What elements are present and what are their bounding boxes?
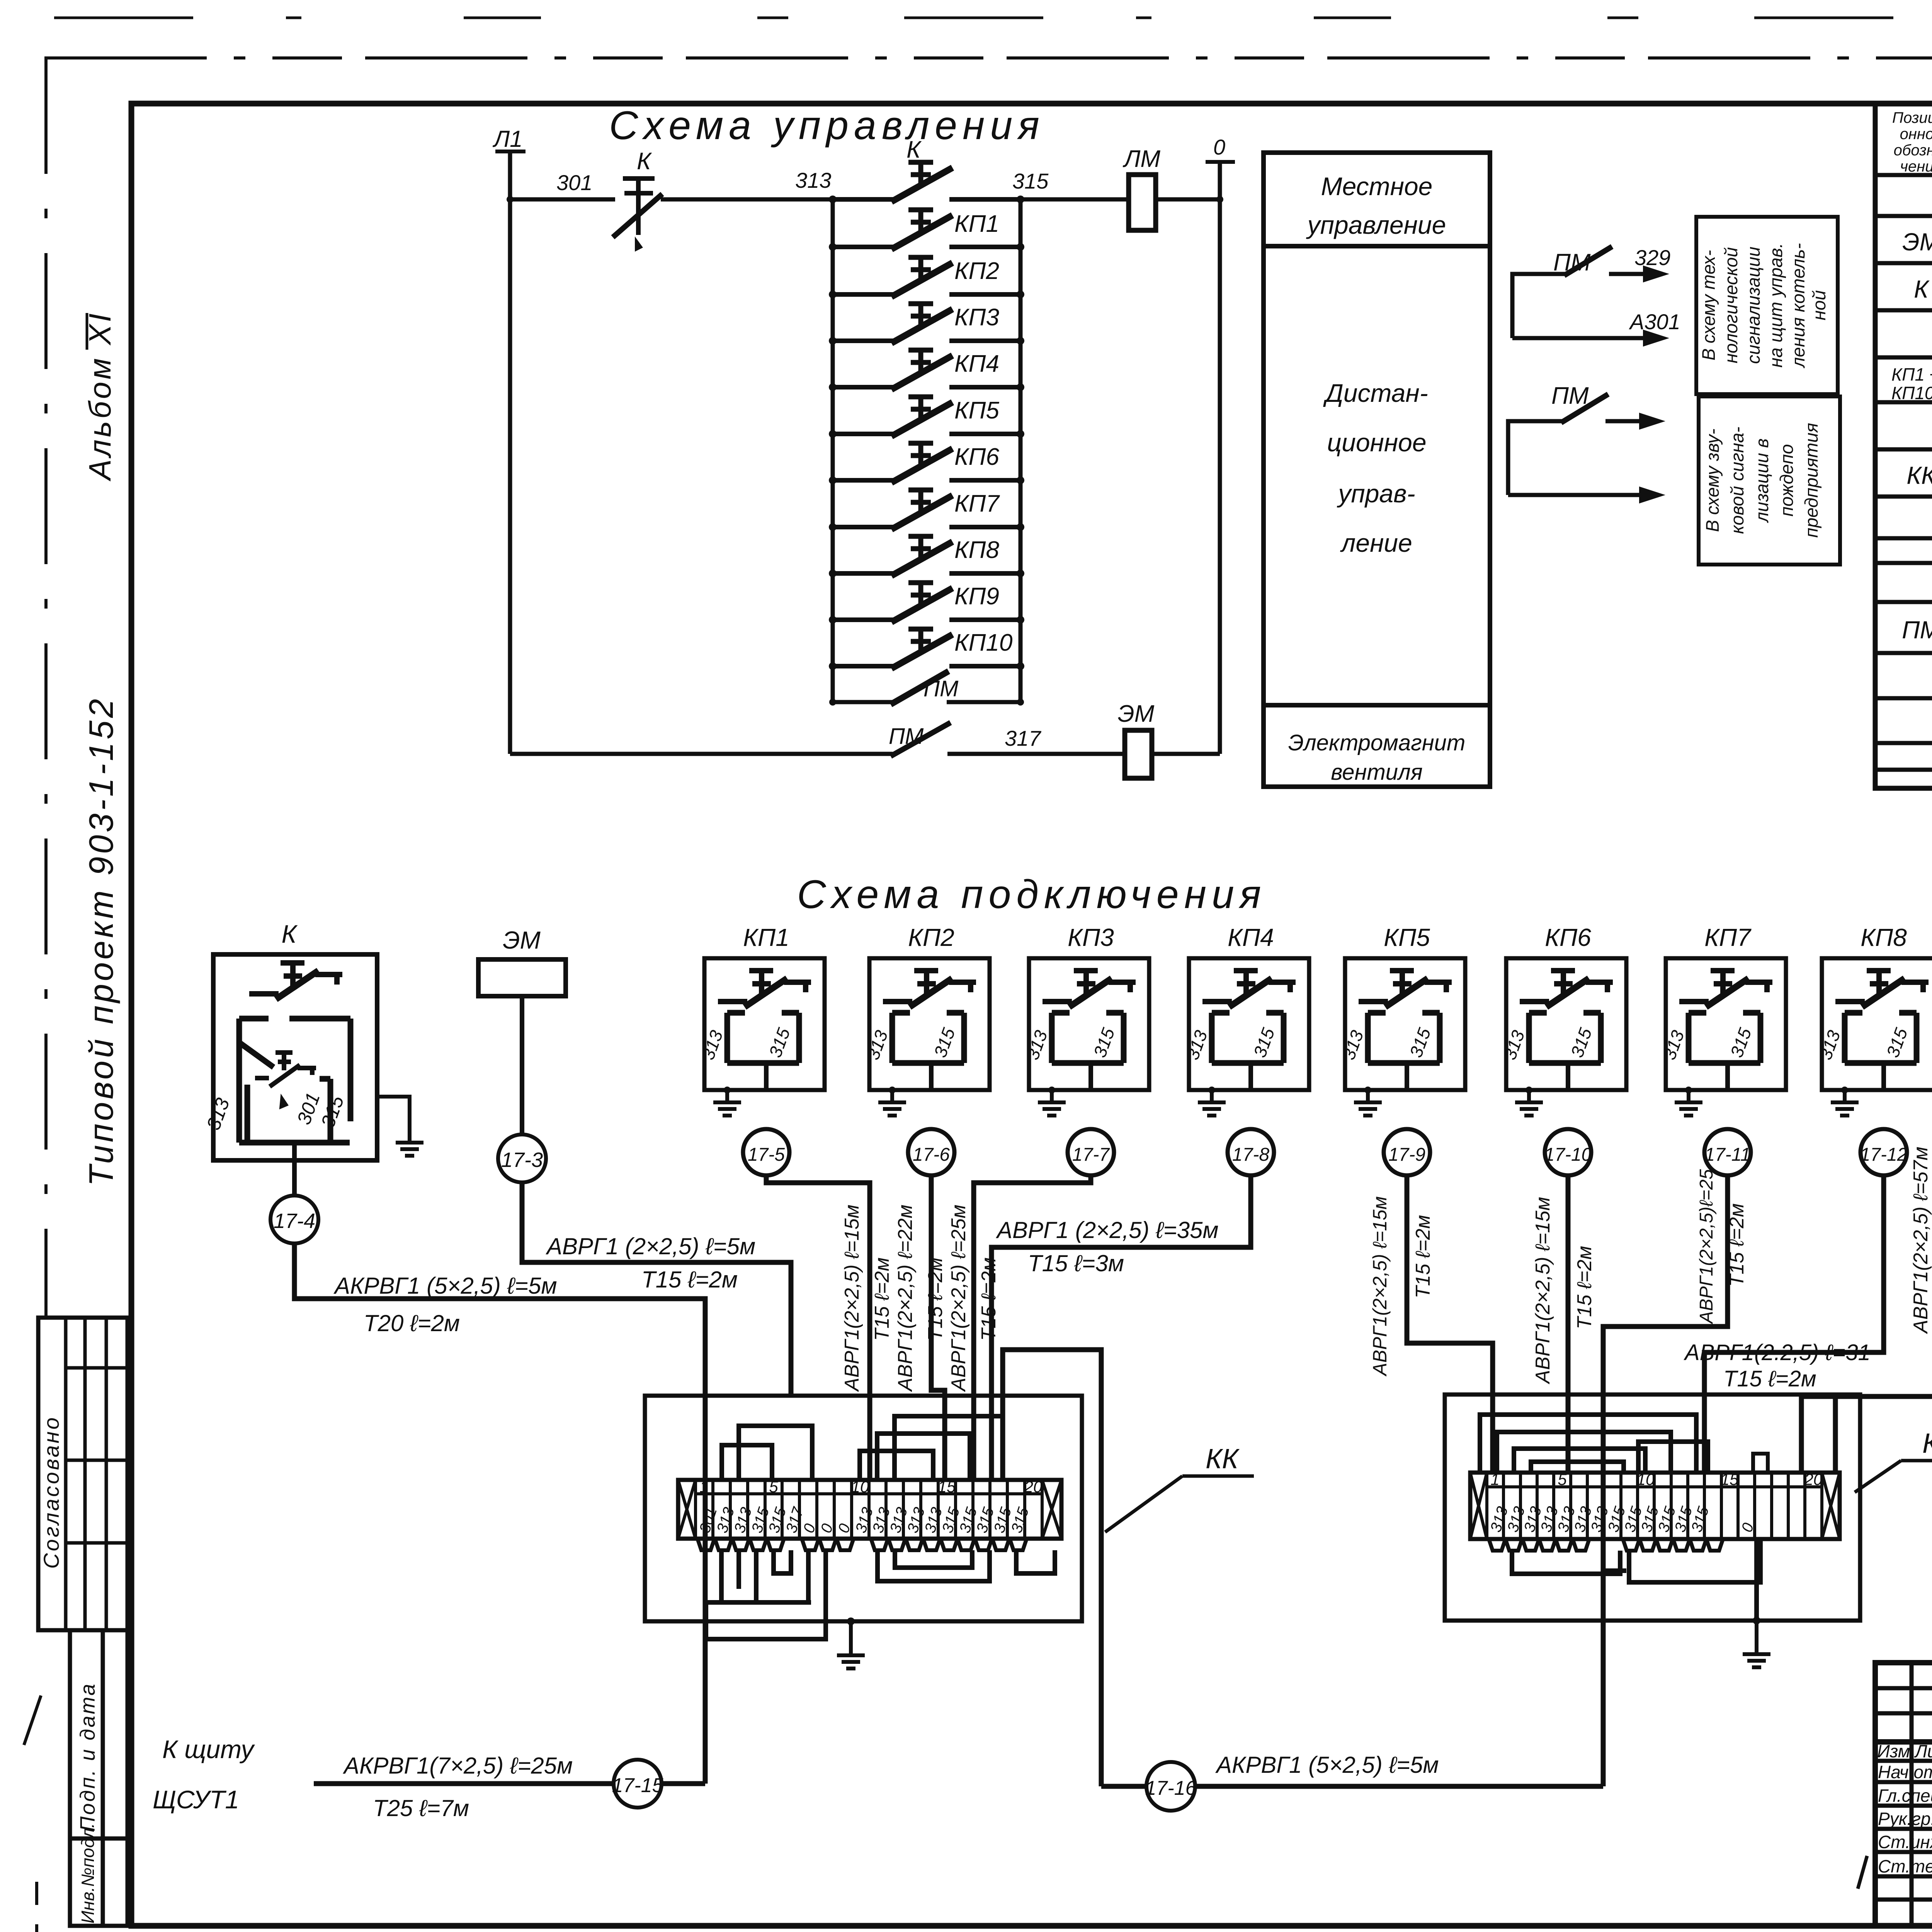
terminal strip KK1 <box>678 1480 1061 1539</box>
svg-text:В схему зву-: В схему зву- <box>1702 429 1723 532</box>
svg-text:КП5: КП5 <box>954 397 999 424</box>
svg-text:ной: ной <box>1809 290 1829 320</box>
push-button contact KP9 <box>829 582 1024 624</box>
signatures <box>1858 1766 1932 1889</box>
svg-text:Инв.№подл.: Инв.№подл. <box>78 1823 98 1923</box>
svg-text:ЩСУТ1: ЩСУТ1 <box>153 1785 239 1814</box>
svg-text:5: 5 <box>1558 1470 1567 1488</box>
svg-text:17-12: 17-12 <box>1860 1145 1908 1165</box>
svg-text:АВРГ1(2×2,5) ℓ=15м: АВРГ1(2×2,5) ℓ=15м <box>1532 1197 1554 1384</box>
svg-text:К: К <box>1914 275 1930 303</box>
svg-text:17-15: 17-15 <box>612 1774 664 1797</box>
svg-text:Согласовано: Согласовано <box>39 1415 63 1569</box>
svg-text:Типовой проект 903-1-152: Типовой проект 903-1-152 <box>82 696 120 1186</box>
svg-text:315: 315 <box>1012 169 1049 193</box>
svg-text:К: К <box>282 920 298 948</box>
button station KP4 <box>1182 958 1309 1090</box>
svg-text:вентиля: вентиля <box>1331 760 1422 785</box>
control mode box <box>1264 153 1490 787</box>
svg-text:ПМ: ПМ <box>889 724 924 749</box>
svg-text:1: 1 <box>1490 1470 1499 1488</box>
wire 301 top <box>510 197 615 202</box>
wire jumpers below strip KK2 <box>1512 1539 1760 1582</box>
button station K <box>213 954 377 1196</box>
svg-text:ПМ: ПМ <box>1902 616 1932 644</box>
svg-text:17-7: 17-7 <box>1072 1145 1110 1165</box>
svg-text:Л1: Л1 <box>492 126 523 152</box>
svg-text:ционное: ционное <box>1327 428 1426 457</box>
svg-text:5: 5 <box>769 1478 778 1496</box>
svg-text:Ст.техн.: Ст.техн. <box>1878 1856 1932 1876</box>
cable marker circle 17-16 <box>1101 1784 1146 1789</box>
svg-text:КП1: КП1 <box>743 923 789 951</box>
wire 313 top <box>661 197 833 202</box>
wire bottom rung <box>510 752 893 756</box>
svg-text:АКРВГ1 (5×2,5) ℓ=5м: АКРВГ1 (5×2,5) ℓ=5м <box>1215 1752 1439 1778</box>
svg-text:нологической: нологической <box>1721 247 1741 364</box>
svg-text:17-16: 17-16 <box>1145 1777 1197 1799</box>
terminal wire labels KK2 <box>1487 1504 1757 1534</box>
svg-text:ЭМ: ЭМ <box>1118 701 1155 727</box>
margin approval box <box>38 1318 128 1630</box>
margin signature-date box <box>70 1630 128 1838</box>
svg-text:КК: КК <box>1922 1428 1932 1459</box>
cable KP2 to KK1 <box>931 1175 945 1480</box>
svg-text:КП10: КП10 <box>954 629 1012 656</box>
title block <box>1875 1663 1932 1926</box>
svg-text:10: 10 <box>1637 1470 1655 1488</box>
annotation box sound alarm <box>1699 396 1840 565</box>
svg-text:Т15 ℓ=2м: Т15 ℓ=2м <box>1723 1366 1816 1391</box>
svg-text:КП6: КП6 <box>1545 923 1591 951</box>
svg-text:301: 301 <box>556 170 592 195</box>
svg-text:чение: чение <box>1900 158 1932 175</box>
svg-text:20: 20 <box>1024 1478 1043 1496</box>
wire to sound alarm arrow <box>1508 493 1648 497</box>
svg-text:Т15 ℓ=2м: Т15 ℓ=2м <box>1573 1246 1596 1329</box>
wire ladder right rail 315 <box>1019 199 1023 702</box>
cable KP9 to KK2 <box>1801 1175 1932 1473</box>
svg-text:АВРГ1(2×2,5) ℓ=22м: АВРГ1(2×2,5) ℓ=22м <box>894 1204 917 1392</box>
svg-text:лизации в: лизации в <box>1752 439 1772 524</box>
button station KP6 <box>1500 958 1626 1090</box>
svg-text:В схему тех-: В схему тех- <box>1698 250 1719 361</box>
svg-text:0: 0 <box>1213 135 1225 159</box>
svg-text:ЭМ: ЭМ <box>503 926 541 954</box>
push-button contact KP2 <box>829 257 1024 298</box>
svg-text:ЛМ: ЛМ <box>1122 146 1161 172</box>
svg-text:КП6: КП6 <box>954 444 999 470</box>
svg-text:пождепо: пождепо <box>1776 444 1797 516</box>
svg-text:1: 1 <box>699 1478 708 1496</box>
svg-text:Схема управления: Схема управления <box>609 103 1045 148</box>
svg-text:КП8: КП8 <box>954 537 999 563</box>
svg-text:313: 313 <box>202 1095 234 1133</box>
svg-text:К: К <box>906 136 922 163</box>
wire A301 arrow <box>1512 336 1652 340</box>
push-button contact KP1 <box>829 209 1024 251</box>
terminal numbers KK1 <box>699 1478 1043 1496</box>
push-button contact KP6 <box>829 442 1024 484</box>
svg-text:ления котель-: ления котель- <box>1788 243 1808 369</box>
svg-text:сигнализации: сигнализации <box>1743 247 1764 364</box>
push-button contact KP7 <box>829 489 1024 531</box>
svg-text:ПМ: ПМ <box>1551 383 1589 409</box>
svg-text:Изм.Лист: Изм.Лист <box>1877 1741 1932 1761</box>
svg-text:313: 313 <box>795 168 831 192</box>
button station KP1 <box>698 958 825 1090</box>
svg-text:АВРГ1(2×2,5) ℓ=15м: АВРГ1(2×2,5) ℓ=15м <box>841 1204 863 1392</box>
push-button contact KP5 <box>829 396 1024 438</box>
cable entries KK2 <box>1489 1539 1723 1551</box>
cable KP4 to KK1 <box>992 1175 1251 1480</box>
border cut line left <box>44 58 48 1317</box>
svg-text:ковой сигна-: ковой сигна- <box>1727 427 1747 534</box>
svg-text:АВРГ1 (2×2,5) ℓ=5м: АВРГ1 (2×2,5) ℓ=5м <box>546 1233 755 1259</box>
svg-text:Рук.гр.: Рук.гр. <box>1878 1809 1932 1829</box>
svg-text:15: 15 <box>938 1478 956 1496</box>
terminal strip KK2 <box>1470 1473 1840 1539</box>
svg-text:Ст.инж.: Ст.инж. <box>1878 1832 1932 1852</box>
svg-text:Т15 ℓ=2м: Т15 ℓ=2м <box>978 1257 1000 1341</box>
svg-text:КП3: КП3 <box>954 304 999 331</box>
svg-text:АВРГ1(2×2,5) ℓ=15м: АВРГ1(2×2,5) ℓ=15м <box>1369 1196 1391 1377</box>
svg-text:управление: управление <box>1306 211 1446 239</box>
svg-text:КП4: КП4 <box>1228 923 1274 951</box>
border cut diagonal mark left <box>24 1696 41 1745</box>
terminal box KK2 enclosure <box>1445 1395 1860 1621</box>
push-button contact KP8 <box>829 536 1024 577</box>
svg-text:Т15 ℓ=2м: Т15 ℓ=2м <box>1726 1203 1748 1287</box>
svg-text:Т15 ℓ=2м: Т15 ℓ=2м <box>1412 1215 1434 1298</box>
button station KP7 <box>1659 958 1786 1090</box>
svg-text:ление: ление <box>1340 529 1412 557</box>
parts table <box>1875 104 1932 788</box>
button station KP5 <box>1338 958 1465 1090</box>
svg-text:ПМ: ПМ <box>923 676 959 701</box>
svg-text:Подп. и дата: Подп. и дата <box>76 1682 99 1832</box>
svg-text:А301: А301 <box>1629 310 1680 334</box>
cable KP6 to KK2 <box>1566 1175 1571 1473</box>
svg-text:15: 15 <box>1721 1470 1739 1488</box>
wire jumpers below strip KK1 <box>704 1550 1055 1639</box>
push-button contact KP3 <box>829 303 1024 345</box>
svg-text:Нач.отд.: Нач.отд. <box>1878 1762 1932 1782</box>
electromagnet coil EM <box>1125 730 1152 778</box>
svg-text:Позици-: Позици- <box>1892 109 1932 126</box>
cable K to KK1 <box>294 1243 705 1784</box>
svg-text:17-10: 17-10 <box>1544 1145 1592 1165</box>
svg-text:17-11: 17-11 <box>1704 1145 1750 1165</box>
svg-text:Т15 ℓ=2м: Т15 ℓ=2м <box>924 1257 947 1341</box>
push-button contact KP4 <box>829 349 1024 391</box>
svg-text:КК: КК <box>1206 1444 1240 1475</box>
cable KP3 to KK1 <box>974 1175 1091 1480</box>
disconnect button K (NC maintained) <box>613 179 662 250</box>
terminal box KK1 enclosure <box>645 1396 1082 1621</box>
ground KK2 <box>1754 1539 1759 1621</box>
svg-text:АВРГ1(2.2,5) ℓ=31: АВРГ1(2.2,5) ℓ=31 <box>1684 1340 1871 1365</box>
svg-text:Т20 ℓ=2м: Т20 ℓ=2м <box>364 1310 460 1336</box>
svg-text:КП10: КП10 <box>1891 383 1932 403</box>
push-button contact KP10 <box>829 628 1024 670</box>
svg-text:онное: онное <box>1900 126 1932 143</box>
cable KK1 to marker 17-16 <box>1003 1350 1101 1786</box>
cable marker circle 17-3 <box>498 1134 546 1182</box>
svg-text:К: К <box>637 148 652 175</box>
svg-text:АКРВГ1 (5×2,5) ℓ=5м: АКРВГ1 (5×2,5) ℓ=5м <box>333 1273 557 1299</box>
svg-text:КП2: КП2 <box>954 258 999 284</box>
svg-text:17-8: 17-8 <box>1232 1145 1269 1165</box>
margin inventory box <box>70 1838 128 1926</box>
svg-text:Электромагнит: Электромагнит <box>1288 730 1466 755</box>
svg-text:Схема подключения: Схема подключения <box>797 872 1267 917</box>
svg-text:КП8: КП8 <box>1861 923 1907 951</box>
ground KK1 <box>847 1617 855 1625</box>
svg-text:20: 20 <box>1804 1470 1823 1488</box>
cable marker circle 17-4 <box>270 1196 318 1243</box>
svg-text:КП4: КП4 <box>954 350 999 377</box>
svg-text:КП2: КП2 <box>908 923 954 951</box>
svg-text:КП7: КП7 <box>1704 923 1752 951</box>
svg-text:Т15 ℓ=3м: Т15 ℓ=3м <box>1028 1250 1124 1276</box>
cable KP7 through KK2 <box>1603 1175 1728 1786</box>
cable KK1 to KK2 <box>1196 1784 1603 1789</box>
button station KP2 <box>863 958 990 1090</box>
svg-text:КК: КК <box>1906 461 1932 489</box>
svg-text:Местное: Местное <box>1321 172 1433 201</box>
relay contact PM holding <box>833 671 1020 704</box>
svg-text:КП9: КП9 <box>954 583 999 610</box>
svg-text:АВРГ1(2×2,5) ℓ=57м: АВРГ1(2×2,5) ℓ=57м <box>1910 1146 1932 1334</box>
svg-text:АВРГ1(2×2,5) ℓ=25м: АВРГ1(2×2,5) ℓ=25м <box>947 1204 970 1392</box>
cable marker circle 17-15 <box>614 1760 662 1808</box>
svg-text:10: 10 <box>851 1478 869 1496</box>
terminal numbers KK2 <box>1490 1470 1823 1488</box>
svg-text:КП1: КП1 <box>954 211 999 237</box>
push-button contact K (NO) on top rung <box>829 162 1024 203</box>
cable entries KK1 <box>697 1539 1027 1550</box>
svg-text:обозна-: обозна- <box>1894 142 1932 159</box>
cable KP1 to KK1 <box>766 1175 870 1480</box>
cable EM to KK1 <box>522 1182 791 1394</box>
svg-text:КП7: КП7 <box>954 490 1000 517</box>
border cut line top <box>44 56 1932 60</box>
svg-text:КП1 ÷: КП1 ÷ <box>1891 364 1932 384</box>
svg-text:АКРВГ1(7×2,5) ℓ=25м: АКРВГ1(7×2,5) ℓ=25м <box>343 1753 573 1779</box>
svg-text:Т15 ℓ=2м: Т15 ℓ=2м <box>871 1257 893 1341</box>
svg-text:на щит управ.: на щит управ. <box>1765 243 1786 368</box>
svg-text:Т25 ℓ=7м: Т25 ℓ=7м <box>373 1795 469 1821</box>
svg-text:КП5: КП5 <box>1384 923 1430 951</box>
cable KP10 to KK2 <box>1835 1175 1932 1473</box>
svg-text:17-9: 17-9 <box>1388 1145 1425 1165</box>
cable to shield <box>314 1781 614 1786</box>
electromagnet EM <box>478 959 566 996</box>
svg-text:17-6: 17-6 <box>913 1145 950 1165</box>
svg-text:Дистан-: Дистан- <box>1323 379 1428 407</box>
sheet edge artifact top <box>54 17 1932 19</box>
wire LM to 0 rail <box>1156 197 1220 202</box>
annotation box technological alarm <box>1696 217 1838 394</box>
ground at K <box>377 1097 410 1132</box>
svg-text:17-4: 17-4 <box>274 1209 315 1233</box>
svg-text:предприятия: предприятия <box>1801 423 1821 537</box>
cable KP5 to KK2 <box>1407 1175 1493 1473</box>
wire L1 left rail <box>508 151 512 754</box>
wire loops above strip KK1 <box>722 1416 1003 1480</box>
svg-text:329: 329 <box>1634 245 1670 270</box>
svg-text:Т15 ℓ=2м: Т15 ℓ=2м <box>641 1267 738 1293</box>
wire 0 right rail <box>1218 162 1222 754</box>
svg-text:315: 315 <box>1008 1505 1032 1535</box>
wire loops above strip KK2 <box>1480 1415 1768 1473</box>
svg-text:17-3: 17-3 <box>501 1148 543 1172</box>
button station KP8 <box>1815 958 1932 1090</box>
wire ladder left rail 313 <box>831 199 835 702</box>
svg-text:управ-: управ- <box>1337 479 1415 508</box>
svg-text:АВРГ1 (2×2,5) ℓ=35м: АВРГ1 (2×2,5) ℓ=35м <box>996 1217 1219 1243</box>
relay contact PM bottom <box>891 723 951 756</box>
button station KP3 <box>1022 958 1149 1090</box>
relay coil LM <box>1129 175 1156 230</box>
svg-text:ЭМ: ЭМ <box>1902 228 1932 256</box>
cable KP8 to KK2 <box>1704 1175 1884 1473</box>
wire 315 to LM coil <box>1020 197 1129 202</box>
svg-text:К щиту: К щиту <box>162 1735 255 1764</box>
wire EM to 0 rail <box>1152 752 1220 756</box>
svg-text:17-5: 17-5 <box>748 1145 785 1165</box>
svg-text:317: 317 <box>1005 726 1041 750</box>
terminal wire labels KK1 <box>696 1505 1032 1535</box>
svg-text:АВРГ1(2×2,5)ℓ=25: АВРГ1(2×2,5)ℓ=25 <box>1696 1169 1717 1325</box>
svg-text:Гл.спец.: Гл.спец. <box>1878 1786 1932 1806</box>
svg-text:КП3: КП3 <box>1068 923 1114 951</box>
